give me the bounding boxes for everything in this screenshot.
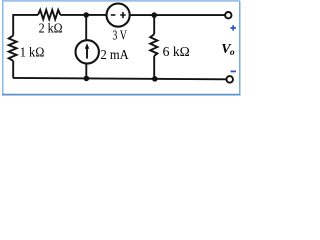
wire 6k branch upper [153, 15, 155, 34]
svg-text:3 V: 3 V [112, 29, 127, 44]
wire 6k branch lower [153, 56, 155, 79]
terminal bottom (open circle) [226, 76, 233, 83]
wire left branch lower [12, 61, 14, 78]
polarity plus (blue) [230, 25, 236, 30]
junction node top of current source [83, 12, 89, 18]
junction node bottom of current source [84, 76, 90, 82]
label 1 kΩ [20, 45, 45, 60]
svg-text:2 mA: 2 mA [101, 48, 130, 63]
label 6 kΩ [163, 45, 190, 60]
junction node bottom of 6 kΩ [152, 76, 158, 82]
wire bottom rail [13, 78, 227, 79]
svg-text:1 kΩ: 1 kΩ [20, 45, 45, 60]
label 3 V [112, 29, 127, 44]
resistor 1 kΩ [9, 36, 17, 61]
svg-text:o: o [230, 48, 235, 58]
current source 2 mA [76, 40, 99, 63]
voltage source 3 V [107, 4, 130, 27]
resistor 6 kΩ [150, 34, 157, 56]
wire current-source branch upper [85, 15, 87, 40]
resistor 2 kΩ [38, 10, 60, 19]
junction node top of 6 kΩ [151, 12, 157, 18]
wire current-source branch lower [85, 64, 87, 79]
svg-text:2 kΩ: 2 kΩ [39, 21, 63, 36]
wire top rail right segment [130, 14, 225, 16]
label 2 kΩ [39, 21, 63, 36]
terminal top (open circle) [225, 12, 231, 18]
svg-text:6 kΩ: 6 kΩ [163, 45, 190, 60]
polarity minus (blue) [231, 70, 237, 72]
wire top rail left segment [13, 14, 38, 16]
wire top rail middle segment [60, 14, 106, 16]
border frame (decorative) [3, 1, 240, 95]
label 2 mA [101, 48, 130, 63]
wire left branch upper [12, 14, 14, 35]
label Vo (blue) [221, 42, 235, 58]
